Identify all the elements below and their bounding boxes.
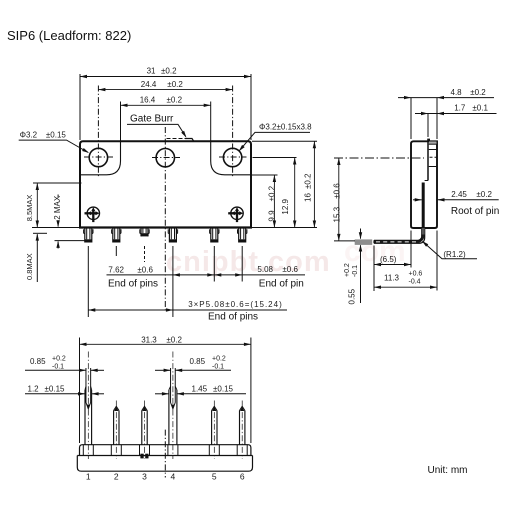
svg-text:3: 3	[142, 472, 147, 482]
svg-text:±0.15: ±0.15	[213, 384, 234, 393]
svg-text:Φ3.2: Φ3.2	[20, 131, 38, 140]
svg-text:±0.6: ±0.6	[137, 265, 153, 274]
svg-text:+0.2: +0.2	[212, 355, 226, 362]
svg-text:6: 6	[240, 472, 245, 482]
svg-text:±0.2: ±0.2	[268, 185, 277, 201]
svg-text:+0.6: +0.6	[409, 271, 423, 278]
svg-text:24.4: 24.4	[141, 80, 157, 89]
svg-text:7.62: 7.62	[108, 265, 124, 274]
svg-text:Gate Burr: Gate Burr	[130, 113, 174, 124]
svg-text:End of pins: End of pins	[208, 312, 258, 323]
svg-text:SIP6 (Leadform: 822): SIP6 (Leadform: 822)	[7, 28, 131, 43]
svg-text:0.55: 0.55	[348, 288, 357, 304]
svg-text:2 MAX: 2 MAX	[53, 195, 62, 220]
svg-text:4: 4	[171, 472, 176, 482]
svg-text:±0.2: ±0.2	[166, 335, 182, 344]
svg-text:End of pin: End of pin	[259, 278, 304, 289]
svg-text:±0.2: ±0.2	[304, 173, 313, 189]
svg-text:±0.6: ±0.6	[333, 183, 342, 199]
svg-text:(6.5): (6.5)	[380, 255, 397, 264]
svg-text:3×P5.08±0.6=(15.24): 3×P5.08±0.6=(15.24)	[188, 300, 283, 309]
svg-text:±0.2: ±0.2	[161, 67, 177, 76]
svg-text:11.3: 11.3	[384, 274, 400, 283]
svg-text:±0.2: ±0.2	[167, 80, 183, 89]
svg-text:±0.2: ±0.2	[167, 96, 183, 105]
svg-text:2: 2	[114, 472, 119, 482]
svg-text:5.08: 5.08	[257, 265, 273, 274]
svg-text:±0.15: ±0.15	[45, 384, 66, 393]
svg-text:±0.1: ±0.1	[472, 103, 488, 112]
svg-text:±0.2: ±0.2	[476, 190, 492, 199]
svg-text:0.85: 0.85	[30, 357, 46, 366]
svg-text:-0.1: -0.1	[212, 364, 224, 371]
svg-text:End of pins: End of pins	[108, 279, 158, 290]
svg-text:±0.6: ±0.6	[282, 265, 298, 274]
svg-text:1.2: 1.2	[28, 384, 40, 393]
svg-text:31: 31	[147, 67, 156, 76]
svg-text:15.3: 15.3	[333, 206, 342, 222]
svg-text:16.4: 16.4	[140, 96, 156, 105]
svg-text:Unit: mm: Unit: mm	[428, 465, 468, 476]
svg-text:cnipbt.com: cnipbt.com	[166, 246, 331, 278]
svg-text:0.8MAX: 0.8MAX	[25, 253, 34, 280]
svg-text:8.5MAX: 8.5MAX	[25, 195, 34, 222]
svg-text:12.9: 12.9	[281, 198, 290, 214]
svg-text:5: 5	[212, 472, 217, 482]
svg-text:1.45: 1.45	[192, 384, 208, 393]
svg-text:±0.2: ±0.2	[470, 88, 486, 97]
svg-text:-0.1: -0.1	[352, 265, 359, 277]
svg-text:31.3: 31.3	[141, 335, 157, 344]
svg-text:-0.1: -0.1	[52, 364, 64, 371]
svg-text:1.7: 1.7	[454, 103, 466, 112]
svg-text:Root of pin: Root of pin	[451, 206, 499, 217]
svg-text:0.85: 0.85	[190, 357, 206, 366]
svg-text:16: 16	[304, 193, 313, 202]
svg-text:1: 1	[86, 472, 91, 482]
svg-text:±0.15: ±0.15	[46, 131, 67, 140]
svg-text:+0.2: +0.2	[52, 355, 66, 362]
svg-text:+0.2: +0.2	[344, 263, 351, 277]
svg-text:(R1.2): (R1.2)	[443, 250, 466, 259]
svg-text:2.45: 2.45	[451, 190, 467, 199]
svg-text:-0.4: -0.4	[409, 279, 421, 286]
svg-text:9.9: 9.9	[268, 210, 277, 222]
svg-text:Φ3.2±0.15x3.8: Φ3.2±0.15x3.8	[259, 122, 312, 131]
svg-text:4.8: 4.8	[451, 88, 463, 97]
